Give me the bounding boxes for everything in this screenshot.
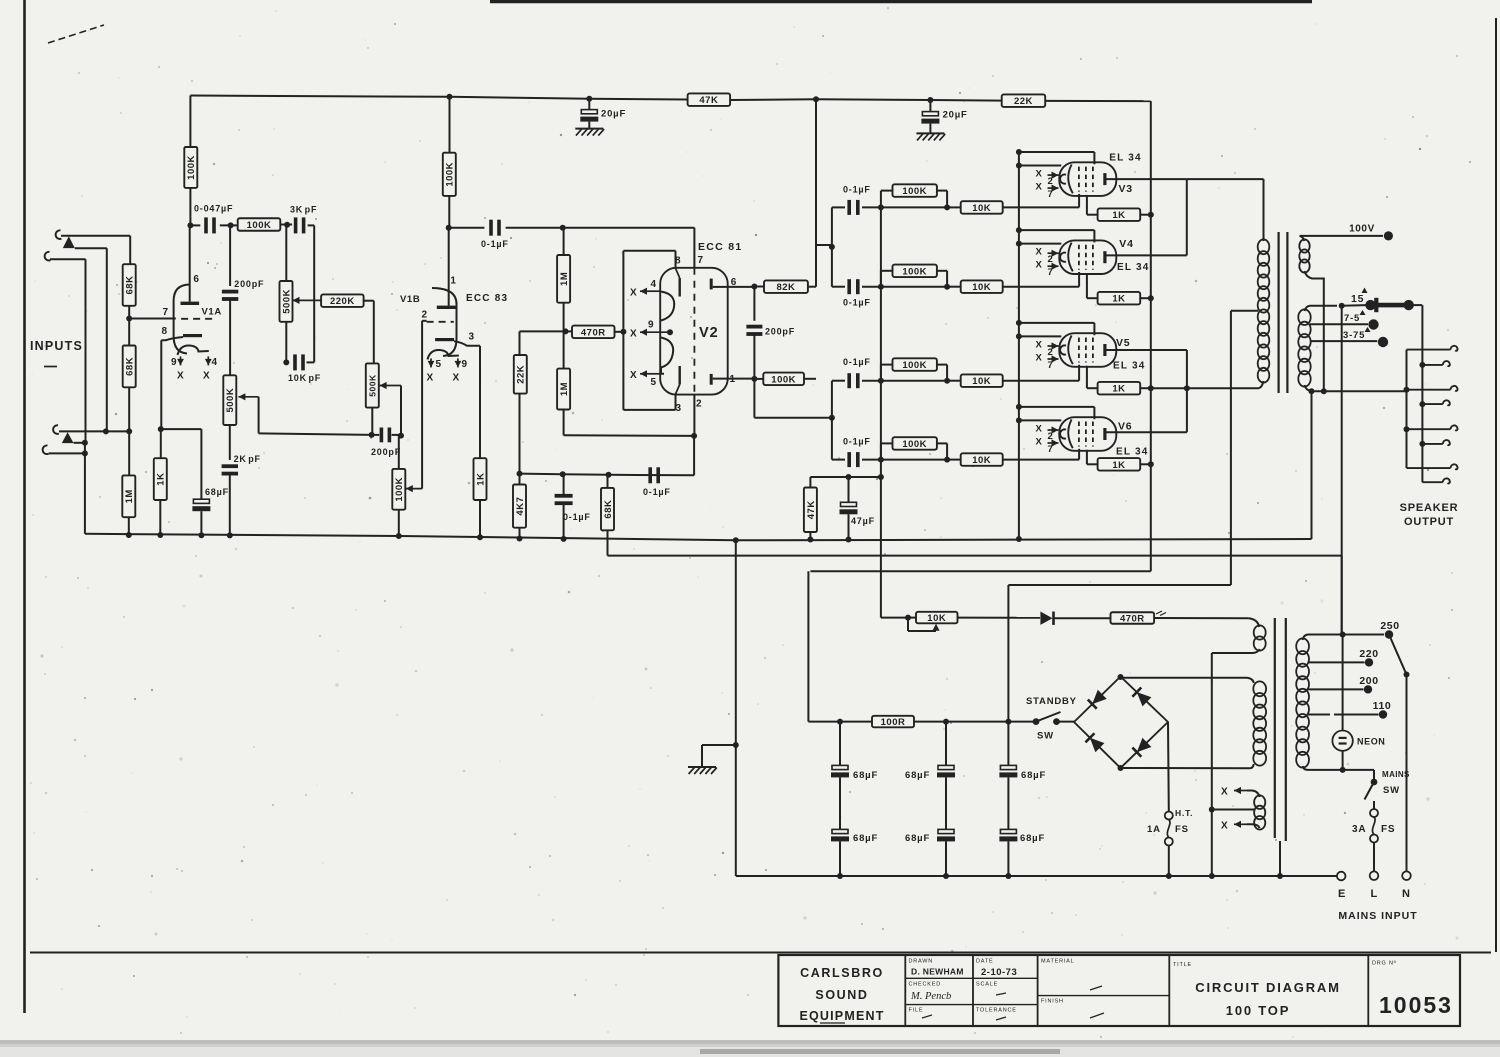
svg-text:X: X <box>177 371 184 382</box>
tube V5 grids dashed <box>1078 338 1080 363</box>
capacitor 0.1uF pin2 decouple <box>648 467 652 483</box>
100V line terminal <box>1300 235 1384 237</box>
tube V3 EL34 envelope <box>1059 162 1116 196</box>
input jack J3 (channel 2 tip) <box>53 425 59 434</box>
svg-text:L: L <box>1371 888 1379 900</box>
svg-text:100K: 100K <box>247 220 272 231</box>
svg-text:100R: 100R <box>881 717 906 728</box>
svg-text:1: 1 <box>450 276 456 287</box>
svg-text:2: 2 <box>696 399 702 410</box>
100K wiper arrow <box>406 488 422 490</box>
node 3KpF junction <box>280 224 292 226</box>
svg-text:68µF: 68µF <box>905 833 930 844</box>
V2 pin 5 heater arrow <box>647 373 662 375</box>
wire screen bus <box>1018 153 1020 539</box>
node 1M top <box>560 225 566 231</box>
svg-text:X: X <box>1036 353 1043 364</box>
500K volume wiper <box>238 396 258 398</box>
ground 20uF 1 <box>575 128 603 130</box>
svg-text:100K: 100K <box>771 374 796 385</box>
svg-text:0-047µF: 0-047µF <box>194 204 233 214</box>
svg-text:X: X <box>1036 437 1043 448</box>
plate wires V5 V6 <box>1107 349 1187 351</box>
svg-text:X: X <box>1036 169 1043 180</box>
wire coupling cap feeds <box>831 207 833 286</box>
mains transformer core <box>1274 618 1276 838</box>
resistor 68K grid leak upper <box>129 236 131 264</box>
heater winding X top <box>1234 790 1247 792</box>
tube V6 EL34 screen feed <box>1016 404 1022 410</box>
svg-text:1K: 1K <box>1112 460 1125 471</box>
svg-text:22K: 22K <box>516 365 527 384</box>
svg-text:1M: 1M <box>559 382 570 396</box>
node reservoir 2 <box>943 719 949 725</box>
speaker jack 2 tip <box>1422 403 1442 405</box>
svg-text:V2: V2 <box>699 325 719 341</box>
capacitor 68uF reservoir 2b <box>938 829 954 833</box>
resistor 1K V3 cathode <box>1098 208 1141 221</box>
speaker jack 3 tip <box>1422 443 1442 445</box>
wire cathode bypass branch <box>161 428 202 430</box>
tube V4 anode <box>1103 251 1106 263</box>
mains transformer HV winding <box>1253 681 1266 696</box>
speaker tap 7.5 ohm <box>1310 323 1368 325</box>
wire V3 grid entry <box>1078 194 1080 208</box>
wire V1A grid <box>129 318 176 320</box>
svg-text:X: X <box>1036 340 1043 351</box>
resistor 4K7 <box>519 474 521 485</box>
svg-text:500K: 500K <box>225 388 236 413</box>
resistor 100K V5 grid leak <box>880 365 882 381</box>
wire lower anode to caps <box>753 379 755 418</box>
voltage selector wiper <box>1389 635 1407 675</box>
svg-text:X: X <box>1036 182 1043 193</box>
svg-text:1K: 1K <box>1112 384 1125 395</box>
wire HT B+ branch <box>1008 584 1231 586</box>
wire V6 grid entry <box>1078 449 1080 460</box>
wire V3 grid <box>1003 206 1079 208</box>
svg-text:10K pF: 10K pF <box>288 373 321 383</box>
wire secondary common <box>1309 388 1315 394</box>
resistor 82K <box>754 286 764 288</box>
svg-text:7: 7 <box>1048 267 1054 278</box>
svg-text:100V: 100V <box>1349 224 1375 235</box>
node wiper junction <box>398 433 404 439</box>
bridge diode NE <box>1137 692 1152 706</box>
capacitor 68uF reservoir 3b <box>1000 829 1016 833</box>
wire speaker jack feed A <box>1421 305 1423 482</box>
potentiometer 100K V1B grid <box>398 436 400 469</box>
primary bottom line <box>1308 769 1374 771</box>
wire tone slider bus <box>259 433 372 435</box>
resistor 1M input <box>128 431 130 475</box>
tube V5 EL34 envelope <box>1059 333 1116 367</box>
svg-text:X: X <box>1221 787 1228 798</box>
svg-text:2K pF: 2K pF <box>234 454 261 464</box>
svg-text:MAINS: MAINS <box>1382 770 1410 779</box>
V2 anode upper <box>710 279 713 290</box>
node input junction <box>126 428 132 434</box>
svg-text:CIRCUIT DIAGRAM: CIRCUIT DIAGRAM <box>1195 980 1340 995</box>
svg-text:200pF: 200pF <box>371 447 401 457</box>
svg-text:SOUND: SOUND <box>815 988 868 1002</box>
tube V5 EL34 screen feed <box>1016 320 1022 326</box>
wire 15 ohm feedback to mains selector <box>1341 306 1343 635</box>
tube V4 grids dashed <box>1078 245 1080 270</box>
svg-text:10K: 10K <box>972 376 991 387</box>
mains transformer heater winding <box>1254 795 1265 809</box>
V1A heater pin 4 <box>207 356 209 365</box>
tube V3 inner seam arc <box>1068 165 1073 194</box>
svg-text:3: 3 <box>676 403 682 414</box>
wire V2 pin2 bottom <box>691 433 697 439</box>
tube V4 EL34 envelope <box>1059 240 1116 274</box>
title block frame <box>778 955 1460 1026</box>
node V2 anode upper junction <box>751 284 757 290</box>
wire neon to primary bottom <box>1342 751 1344 770</box>
svg-text:4: 4 <box>212 357 218 368</box>
tube V6 EL34 envelope <box>1059 417 1116 451</box>
tube V4 suppressor feed <box>1016 241 1022 247</box>
svg-text:X: X <box>630 329 637 340</box>
V2 cathode lower <box>661 338 673 374</box>
wire V4 cathode <box>1086 273 1088 298</box>
node V1A grid junction <box>126 316 132 322</box>
node grid stopper V3 <box>944 204 950 210</box>
treble wiper arrow <box>293 299 322 301</box>
wire V5 cathode <box>1086 366 1088 388</box>
resistor 68K divider <box>607 475 609 488</box>
tube V5 inner seam arc <box>1068 335 1073 364</box>
svg-text:8: 8 <box>675 256 681 267</box>
speaker jack 4 sleeve <box>1407 467 1451 469</box>
svg-text:100K: 100K <box>902 439 927 450</box>
node grid stopper V4 <box>944 284 950 290</box>
wire PSU ground drop <box>733 537 739 543</box>
svg-text:9: 9 <box>648 320 654 331</box>
speaker jack 4 tip <box>1422 481 1442 483</box>
svg-text:200pF: 200pF <box>765 327 795 337</box>
tube V4 EL34 screen feed <box>1016 227 1022 233</box>
resistor 100K mixer <box>238 218 281 231</box>
V2 grid lower <box>679 366 681 385</box>
resistor 47K bias filter <box>809 477 811 488</box>
neon indicator <box>1332 731 1352 751</box>
node V6 cathode bus <box>1148 461 1154 467</box>
tube V4 inner seam arc <box>1068 243 1073 272</box>
resistor 68K grid leak lower <box>123 346 136 388</box>
tube V3 anode <box>1103 173 1106 185</box>
svg-text:M. Pencb: M. Pencb <box>910 991 951 1002</box>
bridge diode SE <box>1137 738 1152 752</box>
svg-text:X: X <box>1036 260 1043 271</box>
resistor 100R <box>872 716 914 728</box>
resistor 10K V5 grid stopper <box>947 380 961 382</box>
heater winding centre tap <box>1213 809 1254 811</box>
svg-text:V4: V4 <box>1119 238 1133 250</box>
svg-text:2-10-73: 2-10-73 <box>981 967 1017 978</box>
node 10KpF junction <box>283 359 289 365</box>
svg-text:68µF: 68µF <box>905 770 930 781</box>
V2 anode lower <box>710 374 713 385</box>
svg-text:68K: 68K <box>125 357 136 376</box>
node coupling split upper <box>829 244 835 250</box>
svg-text:1K: 1K <box>156 473 167 486</box>
resistor 10K V6 grid stopper <box>947 459 961 461</box>
svg-text:2: 2 <box>422 310 428 321</box>
tube V5 grid cap nub <box>1060 345 1066 354</box>
svg-text:100K: 100K <box>186 155 197 180</box>
wire J2 sleeve down to ground rail <box>85 259 87 443</box>
input jack J2 (channel 1 sleeve) <box>45 252 51 261</box>
wire bridge negative to fuse <box>1167 722 1170 812</box>
svg-text:4K7: 4K7 <box>515 497 526 516</box>
capacitor 3KpF bright <box>294 217 298 233</box>
resistor 1K V4 cathode <box>1098 292 1141 305</box>
resistor 1K V6 cathode <box>1098 458 1141 471</box>
wire V1A cathode down <box>160 340 162 429</box>
wire bias bus <box>880 207 882 617</box>
svg-text:TITLE: TITLE <box>1173 962 1192 968</box>
svg-text:68K: 68K <box>603 500 614 519</box>
svg-text:4: 4 <box>651 279 657 290</box>
svg-text:X: X <box>630 288 637 299</box>
svg-text:68µF: 68µF <box>1021 770 1046 781</box>
svg-text:EQUIPMENT: EQUIPMENT <box>799 1009 884 1023</box>
svg-text:100K: 100K <box>902 186 927 197</box>
tube V5 suppressor feed <box>1016 333 1022 339</box>
svg-text:TOLERANCE: TOLERANCE <box>976 1008 1017 1014</box>
capacitor 68uF reservoir 3a <box>1007 722 1009 766</box>
wire heater bus <box>608 555 1342 557</box>
svg-text:V1A: V1A <box>202 307 222 318</box>
V2 cathode upper <box>661 292 674 321</box>
svg-text:68µF: 68µF <box>853 833 878 844</box>
resistor 470R bias feed <box>1111 612 1155 624</box>
wire bridge AC top <box>1118 674 1124 680</box>
svg-text:10053: 10053 <box>1379 992 1453 1018</box>
wire core earth <box>1279 841 1281 876</box>
speaker jack 2 sleeve <box>1407 389 1451 391</box>
tube V6 inner seam arc <box>1068 419 1073 448</box>
capacitor 20uF decoupling 2 <box>927 97 933 103</box>
svg-text:X: X <box>453 373 460 384</box>
svg-text:82K: 82K <box>776 282 795 293</box>
wire selector common <box>1342 635 1344 731</box>
capacitor 0.1uF V5 coupling <box>832 380 845 382</box>
capacitor 0.1uF V4 coupling <box>832 286 845 288</box>
node bass bottom <box>369 432 375 438</box>
node 22K bottom <box>517 471 523 477</box>
svg-text:H.T.: H.T. <box>1175 808 1193 818</box>
switch standby <box>1033 718 1040 725</box>
svg-text:CHECKED: CHECKED <box>909 982 942 988</box>
resistor 100K V4 grid leak <box>880 271 882 287</box>
svg-text:1K: 1K <box>1112 210 1125 221</box>
V2 center line pin7 pin2 <box>693 228 695 268</box>
primary tap 220 <box>1308 661 1365 663</box>
node 200pF junction <box>228 222 234 228</box>
node V3 cathode bus <box>1148 212 1154 218</box>
node reservoir 3 <box>1005 719 1011 725</box>
tube V3 suppressor feed <box>1016 163 1022 169</box>
svg-text:7: 7 <box>163 307 169 318</box>
svg-text:0-1µF: 0-1µF <box>843 437 871 447</box>
output transformer secondary winding <box>1298 309 1310 325</box>
node bias bus V5 <box>878 378 884 384</box>
svg-text:20µF: 20µF <box>601 109 626 120</box>
svg-text:8: 8 <box>162 326 168 337</box>
svg-text:100K: 100K <box>445 162 456 187</box>
speaker link 15 ohm <box>1368 303 1408 308</box>
svg-text:1M: 1M <box>559 272 570 286</box>
svg-text:1M: 1M <box>124 489 135 503</box>
svg-text:0-1µF: 0-1µF <box>643 487 671 497</box>
svg-text:FILE: FILE <box>909 1008 924 1014</box>
svg-text:200: 200 <box>1359 675 1378 687</box>
capacitor 0.1uF V1B coupling <box>449 227 485 229</box>
svg-text:EL 34: EL 34 <box>1117 262 1150 273</box>
wire 3KpF right down <box>313 225 315 362</box>
resistor 10K V4 grid stopper <box>947 286 961 288</box>
svg-text:200pF: 200pF <box>234 279 264 289</box>
svg-text:1A: 1A <box>1147 824 1161 835</box>
node V4 cathode bus <box>1148 295 1154 301</box>
V2 pin 9 heater arrow <box>647 331 671 333</box>
svg-text:20µF: 20µF <box>943 109 968 120</box>
resistor 1K V1B cathode <box>479 346 481 458</box>
svg-text:X: X <box>1221 821 1228 832</box>
resistor 1K V5 cathode <box>1098 382 1141 395</box>
primary tap 200 <box>1308 688 1364 690</box>
tube V2 ECC81 envelope <box>660 268 728 395</box>
svg-text:470R: 470R <box>581 327 606 338</box>
wire B+ line <box>807 571 809 721</box>
svg-text:100K: 100K <box>902 266 927 277</box>
resistor 1M V2 grid lower <box>563 331 565 368</box>
svg-text:3: 3 <box>469 332 475 343</box>
svg-text:10K: 10K <box>927 613 946 624</box>
svg-text:X: X <box>203 371 210 382</box>
svg-text:X: X <box>1036 424 1043 435</box>
svg-text:FS: FS <box>1381 824 1395 835</box>
svg-text:7: 7 <box>1048 444 1054 455</box>
terminal L <box>1370 871 1379 880</box>
V1B heater pin 5 <box>430 358 432 367</box>
tube V6 grid cap nub <box>1060 429 1066 438</box>
fuse HT <box>1165 812 1173 820</box>
capacitor 0.047uF coupling <box>190 224 200 226</box>
node grid stopper V5 <box>944 378 950 384</box>
wire 82K to rail <box>815 99 817 286</box>
diode bias rectifier <box>1040 612 1052 625</box>
svg-text:0-1µF: 0-1µF <box>843 298 871 308</box>
node V1A anode <box>187 222 193 228</box>
svg-text:10K: 10K <box>972 203 991 214</box>
V1B heater pin 9 <box>457 358 459 367</box>
svg-text:SW: SW <box>1383 785 1400 796</box>
svg-text:V6: V6 <box>1118 421 1132 433</box>
capacitor 20uF decoupling 1 <box>586 96 592 102</box>
capacitor 68uF V1A cathode bypass <box>193 499 209 503</box>
svg-text:V1B: V1B <box>400 294 420 305</box>
svg-text:FINISH: FINISH <box>1041 999 1064 1005</box>
svg-text:3-75: 3-75 <box>1343 330 1365 341</box>
capacitor 47uF bias <box>848 477 850 503</box>
capacitor 200pF V2 <box>753 287 755 321</box>
potentiometer 10K bias <box>905 615 911 621</box>
capacitor 0.1uF V2 cathode <box>555 494 573 498</box>
svg-text:68K: 68K <box>125 276 136 295</box>
wire V6 cathode <box>1086 450 1088 465</box>
node V2 anode lower junction <box>751 376 757 382</box>
resistor 100K V2 lower load <box>754 378 763 380</box>
resistor 100K V1A anode load <box>189 96 191 148</box>
svg-text:FS: FS <box>1175 824 1189 835</box>
potentiometer 500K bass <box>366 363 379 407</box>
resistor 100K V1B anode load <box>449 97 451 153</box>
V2 pin 4 heater arrow <box>640 290 647 292</box>
wire 22K top <box>520 330 566 332</box>
resistor 10K V3 grid stopper <box>947 206 961 208</box>
capacitor 200pF treble <box>229 225 231 286</box>
svg-text:3K pF: 3K pF <box>290 205 317 215</box>
svg-text:N: N <box>1402 888 1411 900</box>
wire bias winding return <box>1211 653 1213 810</box>
svg-text:V5: V5 <box>1116 337 1130 349</box>
capacitor 68uF reservoir 1b <box>832 829 848 833</box>
node reservoir 1 <box>837 719 843 725</box>
capacitor 200pF bass <box>380 428 384 443</box>
tube V5 anode <box>1103 344 1106 356</box>
svg-text:100 TOP: 100 TOP <box>1226 1003 1290 1018</box>
bridge diode NW <box>1092 690 1107 704</box>
svg-text:0-1µF: 0-1µF <box>843 357 871 367</box>
svg-text:X: X <box>1036 247 1043 258</box>
triode V1B (half ECC83) <box>432 288 457 356</box>
svg-text:68µF: 68µF <box>853 770 878 781</box>
bridge rectifier <box>1074 677 1168 769</box>
svg-text:7: 7 <box>1048 189 1054 200</box>
bridge diode SW <box>1090 738 1105 752</box>
terminal E <box>1337 872 1346 881</box>
resistor 1M V2 grid upper <box>563 228 565 255</box>
fuse mains 3A <box>1373 801 1375 809</box>
wire V4 grid <box>1003 286 1079 288</box>
svg-text:V3: V3 <box>1119 183 1133 195</box>
wire V2 cathode return <box>520 473 563 476</box>
wire HT rail top <box>190 96 687 100</box>
wire bias bus to pot <box>881 617 908 619</box>
resistor 220K <box>321 294 364 307</box>
svg-text:220K: 220K <box>330 296 355 307</box>
svg-text:MAINS INPUT: MAINS INPUT <box>1338 910 1417 922</box>
svg-text:D. NEWHAM: D. NEWHAM <box>911 967 964 977</box>
resistor 1K V1A cathode <box>160 429 162 458</box>
node rail 82K feed <box>813 96 819 102</box>
svg-text:SW: SW <box>1037 731 1054 742</box>
speaker tap 15 ohm <box>1310 305 1337 307</box>
potentiometer 500K volume <box>223 375 236 425</box>
mains input bus <box>736 875 1337 877</box>
svg-text:0-1µF: 0-1µF <box>563 512 591 522</box>
speaker tap 3.75 ohm <box>1310 340 1377 342</box>
capacitor 10KpF <box>293 354 297 370</box>
terminal N <box>1402 871 1411 880</box>
node bias bus V4 <box>878 284 884 290</box>
wire V4 grid entry <box>1078 272 1080 287</box>
svg-text:100K: 100K <box>394 477 405 502</box>
